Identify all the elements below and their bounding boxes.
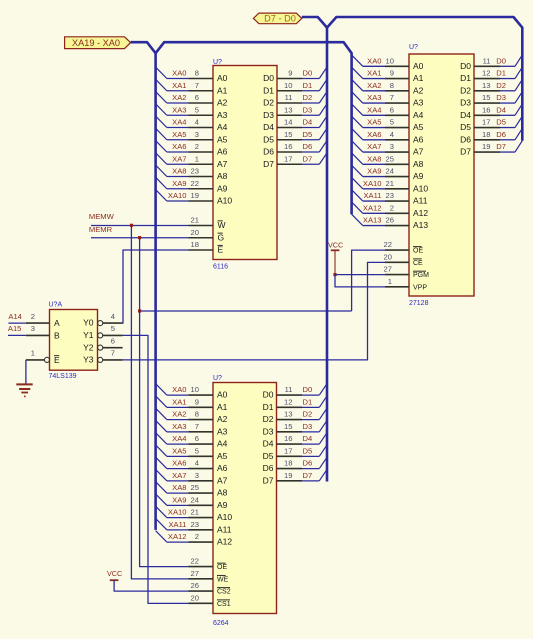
svg-text:A9: A9 <box>413 171 424 181</box>
svg-text:A4: A4 <box>413 110 424 120</box>
svg-text:5: 5 <box>390 118 394 127</box>
svg-text:VCC: VCC <box>328 241 343 250</box>
svg-text:A1: A1 <box>217 85 228 95</box>
wire bus-entry XA7 <box>156 469 167 480</box>
svg-text:D4: D4 <box>303 118 313 127</box>
svg-text:A5: A5 <box>217 134 228 144</box>
pin 10 <box>277 90 302 92</box>
wire bus-entry D7 <box>500 151 515 153</box>
svg-text:A3: A3 <box>413 98 424 108</box>
wire MEMR to 6116 pin 20 <box>91 237 189 239</box>
svg-text:5: 5 <box>195 446 199 455</box>
svg-text:20: 20 <box>191 228 199 237</box>
svg-text:A6: A6 <box>217 147 228 157</box>
svg-text:XA10: XA10 <box>363 179 382 188</box>
svg-text:21: 21 <box>191 216 199 225</box>
pin 4 <box>385 139 409 141</box>
pin 2 <box>385 212 409 214</box>
wire bus-entry D1 <box>500 78 515 80</box>
svg-text:XA1: XA1 <box>367 69 381 78</box>
svg-text:A5: A5 <box>413 122 424 132</box>
svg-text:13: 13 <box>284 105 292 114</box>
svg-text:A14: A14 <box>8 312 22 321</box>
wire bus-entry XA9 <box>156 494 167 505</box>
pin 1 (E-bar) of 74LS139 <box>26 359 45 361</box>
wire bus-entry XA10 <box>352 177 363 188</box>
pin 27 (PGM) of 27128 <box>385 274 409 276</box>
svg-text:D5: D5 <box>303 130 313 139</box>
pin 6 (Y2) of 74LS139 <box>98 345 103 350</box>
pin 16 <box>474 114 500 116</box>
pin 1 (VPP) of 27128 <box>385 286 409 288</box>
svg-text:D7: D7 <box>263 475 274 485</box>
wire bus-entry D5 <box>302 139 319 141</box>
pin 11 <box>474 65 500 67</box>
svg-text:D0: D0 <box>303 385 313 394</box>
svg-text:10: 10 <box>191 385 199 394</box>
svg-text:XA10: XA10 <box>168 191 187 200</box>
pin 7 <box>189 90 214 92</box>
pin 25 <box>385 163 409 165</box>
pin 2 <box>189 541 214 543</box>
svg-text:16: 16 <box>284 434 292 443</box>
svg-text:10: 10 <box>284 81 292 90</box>
svg-text:D3: D3 <box>303 422 313 431</box>
pin 6 <box>189 443 214 445</box>
junction MEMW <box>130 224 133 227</box>
svg-text:20: 20 <box>384 252 392 261</box>
wire bus-entry XA1 <box>352 67 363 78</box>
svg-text:WE: WE <box>217 576 229 583</box>
pin 5 <box>385 127 409 129</box>
svg-text:A0: A0 <box>217 73 228 83</box>
svg-text:D1: D1 <box>496 69 506 78</box>
svg-text:6: 6 <box>195 434 199 443</box>
svg-text:7: 7 <box>195 422 199 431</box>
junction MEMR-OE branch <box>138 309 141 312</box>
svg-text:A5: A5 <box>217 451 228 461</box>
svg-text:D4: D4 <box>263 122 274 132</box>
svg-text:XA3: XA3 <box>367 93 381 102</box>
svg-text:D2: D2 <box>263 98 274 108</box>
wire bus-entry D1 <box>302 90 319 92</box>
svg-text:A4: A4 <box>217 439 228 449</box>
svg-text:D6: D6 <box>303 142 313 151</box>
svg-text:OE: OE <box>413 248 423 255</box>
pin 2 (A) of 74LS139 <box>26 322 50 324</box>
svg-text:25: 25 <box>191 483 199 492</box>
wire bus-entry XA6 <box>156 457 167 468</box>
svg-text:U?A: U?A <box>49 302 63 309</box>
pin 25 <box>189 492 214 494</box>
svg-text:XA5: XA5 <box>172 446 186 455</box>
bus XA vertical left (to 6116 and 6264 address entries) <box>154 52 157 530</box>
wire bus-entry D4 <box>500 114 515 116</box>
wire Y1 to 6264 CS1 (pin 20) <box>123 335 189 603</box>
svg-text:XA10: XA10 <box>168 508 187 517</box>
svg-text:D1: D1 <box>263 402 274 412</box>
bus label XA19-XA0 <box>65 37 131 49</box>
pin 11 <box>277 102 302 104</box>
wire bus-entry XA5 <box>156 445 167 456</box>
wire bus-entry XA8 <box>156 165 167 176</box>
svg-text:XA0: XA0 <box>172 385 186 394</box>
svg-text:3: 3 <box>31 324 35 333</box>
pin 7 <box>189 431 214 433</box>
pin 15 <box>277 431 303 433</box>
svg-text:A2: A2 <box>217 414 228 424</box>
pin 23 <box>385 200 409 202</box>
wire VCC to 6264 CS2 (pin 26) <box>114 580 188 591</box>
svg-text:CE: CE <box>413 260 423 267</box>
wire bus-entry D0 <box>302 394 319 396</box>
svg-text:2: 2 <box>195 532 199 541</box>
svg-text:12: 12 <box>482 69 490 78</box>
svg-text:A12: A12 <box>217 537 232 547</box>
svg-text:26: 26 <box>386 216 394 225</box>
svg-text:XA11: XA11 <box>168 520 186 529</box>
pin 10 <box>189 394 214 396</box>
svg-text:D1: D1 <box>303 81 313 90</box>
svg-text:D3: D3 <box>263 110 274 120</box>
svg-text:22: 22 <box>191 557 199 566</box>
wire bus-entry XA8 <box>156 482 167 493</box>
svg-text:A0: A0 <box>217 390 228 400</box>
wire bus-entry XA12 <box>156 531 167 542</box>
svg-text:6264: 6264 <box>213 620 229 627</box>
svg-text:A12: A12 <box>413 208 428 218</box>
pin 3 (B) of 74LS139 <box>26 334 50 336</box>
svg-text:D0: D0 <box>303 69 313 78</box>
junction VCC-PGM <box>333 273 336 276</box>
svg-text:D3: D3 <box>263 426 274 436</box>
svg-text:27: 27 <box>191 569 199 578</box>
wire bus-entry D2 <box>302 419 319 421</box>
svg-text:24: 24 <box>386 167 394 176</box>
svg-text:D5: D5 <box>263 451 274 461</box>
wire bus-entry D4 <box>302 127 319 129</box>
pin 24 <box>385 176 409 178</box>
svg-text:D2: D2 <box>263 414 274 424</box>
svg-text:A7: A7 <box>217 475 228 485</box>
pin 4 (Y0) of 74LS139 <box>98 321 103 326</box>
svg-text:XA0: XA0 <box>172 69 186 78</box>
svg-text:D0: D0 <box>496 56 506 65</box>
svg-text:A8: A8 <box>217 488 228 498</box>
svg-text:D7: D7 <box>303 471 313 480</box>
pin 18 <box>277 468 303 470</box>
pin 9 <box>189 406 214 408</box>
pin 17 <box>277 163 302 165</box>
svg-text:4: 4 <box>195 118 199 127</box>
svg-text:XA19 - XA0: XA19 - XA0 <box>72 38 120 48</box>
wire E to ground <box>25 360 27 384</box>
svg-text:7: 7 <box>111 349 115 358</box>
svg-text:6: 6 <box>111 336 115 345</box>
pin 11 <box>277 394 303 396</box>
pin 10 <box>385 65 409 67</box>
wire bus-entry D6 <box>500 139 515 141</box>
svg-text:XA4: XA4 <box>367 105 381 114</box>
pin 2 <box>189 151 214 153</box>
svg-text:D3: D3 <box>496 93 506 102</box>
pin 23 <box>189 529 214 531</box>
pin 4 <box>189 468 214 470</box>
svg-text:XA8: XA8 <box>172 483 186 492</box>
wire bus-entry XA11 <box>156 518 167 529</box>
pin 19 <box>189 200 214 202</box>
wire bus-entry XA6 <box>156 141 167 152</box>
memory chip U? 6116 <box>213 66 277 260</box>
svg-text:15: 15 <box>284 130 292 139</box>
svg-text:A10: A10 <box>217 512 232 522</box>
wire bus-entry D1 <box>302 406 319 408</box>
svg-text:1: 1 <box>195 154 199 163</box>
wire MEMR branch to 27128 OE (pin 22) <box>140 310 352 312</box>
pin 12 <box>474 78 500 80</box>
svg-text:D2: D2 <box>303 410 313 419</box>
svg-text:15: 15 <box>284 422 292 431</box>
svg-text:18: 18 <box>191 240 199 249</box>
svg-text:Y0: Y0 <box>83 318 94 328</box>
svg-text:7: 7 <box>390 93 394 102</box>
pin 17 <box>277 455 303 457</box>
wire bus-entry D3 <box>500 102 515 104</box>
svg-text:6: 6 <box>390 105 394 114</box>
svg-text:12: 12 <box>284 397 292 406</box>
bus label D7-D0 <box>253 13 301 24</box>
svg-text:MEMR: MEMR <box>89 225 113 234</box>
svg-text:25: 25 <box>386 154 394 163</box>
svg-text:XA2: XA2 <box>367 81 381 90</box>
memory chip U? 6264 <box>213 383 277 614</box>
svg-text:6: 6 <box>195 93 199 102</box>
svg-text:XA7: XA7 <box>172 471 186 480</box>
svg-text:A8: A8 <box>217 171 228 181</box>
svg-text:D6: D6 <box>460 134 471 144</box>
pin 4 <box>189 127 214 129</box>
svg-text:D1: D1 <box>303 397 313 406</box>
wire bus-entry D0 <box>302 78 319 80</box>
svg-text:XA8: XA8 <box>172 167 186 176</box>
wire bus-entry XA1 <box>156 396 167 407</box>
svg-text:18: 18 <box>482 130 490 139</box>
wire bus-entry XA3 <box>156 104 167 115</box>
svg-text:PGM: PGM <box>413 272 429 279</box>
wire bus-entry D4 <box>302 443 319 445</box>
svg-text:23: 23 <box>386 191 394 200</box>
pin 6 <box>385 114 409 116</box>
svg-text:7: 7 <box>195 81 199 90</box>
svg-text:XA6: XA6 <box>367 130 381 139</box>
svg-text:D7: D7 <box>303 154 313 163</box>
svg-text:VCC: VCC <box>107 569 122 578</box>
wire bus-entry XA1 <box>156 79 167 90</box>
svg-text:A: A <box>54 318 60 328</box>
wire VCC to 27128 PGM (pin 27) <box>335 274 385 276</box>
pin 3 <box>385 151 409 153</box>
svg-text:U?: U? <box>213 59 222 66</box>
wire MEMW to 6116 pin 21 <box>91 225 189 227</box>
pin 21 (W-bar) of 6116 <box>189 225 214 227</box>
pin 19 <box>277 480 303 482</box>
junction MEMR <box>138 236 141 239</box>
wire MEMR vertical to 6264 OE (pin 22) <box>140 238 189 567</box>
wire bus-entry XA7 <box>156 153 167 164</box>
svg-text:D2: D2 <box>496 81 506 90</box>
svg-text:A9: A9 <box>217 500 228 510</box>
pin 3 <box>189 480 214 482</box>
svg-text:XA7: XA7 <box>367 142 381 151</box>
svg-text:VPP: VPP <box>413 284 427 291</box>
svg-text:11: 11 <box>285 93 293 102</box>
svg-text:A7: A7 <box>217 159 228 169</box>
bus D (data bus top, V-drop at x=327, corner to right vertical at x=522.3) <box>302 17 523 141</box>
wire bus-entry XA5 <box>156 128 167 139</box>
svg-text:XA8: XA8 <box>367 154 381 163</box>
svg-text:D1: D1 <box>263 85 274 95</box>
bus D vertical middle (6116 / 6264 data entries) <box>326 27 329 482</box>
wire bus-entry XA6 <box>352 128 363 139</box>
svg-text:26: 26 <box>191 581 199 590</box>
pin 3 <box>189 139 214 141</box>
svg-text:XA12: XA12 <box>363 203 382 212</box>
svg-text:D0: D0 <box>460 61 471 71</box>
svg-text:D6: D6 <box>303 459 313 468</box>
pin 19 <box>474 151 500 153</box>
pin 7 (Y3) of 74LS139 <box>98 357 103 362</box>
pin 16 <box>277 443 303 445</box>
svg-text:23: 23 <box>191 167 199 176</box>
svg-text:XA5: XA5 <box>172 130 186 139</box>
svg-text:8: 8 <box>390 81 394 90</box>
ground <box>16 384 32 396</box>
svg-text:D3: D3 <box>460 98 471 108</box>
svg-text:22: 22 <box>191 179 199 188</box>
svg-text:Y1: Y1 <box>83 330 94 340</box>
svg-text:XA1: XA1 <box>172 81 186 90</box>
pin 26 (CS2) of 6264 <box>189 590 214 592</box>
wire bus-entry XA13 <box>352 214 363 225</box>
wire MEMW vertical to 6264 WE (pin 27) <box>131 226 188 579</box>
wire bus-entry XA10 <box>156 506 167 517</box>
svg-text:D4: D4 <box>496 105 506 114</box>
svg-text:D4: D4 <box>460 110 471 120</box>
svg-text:B: B <box>54 330 60 340</box>
svg-text:A4: A4 <box>217 122 228 132</box>
svg-text:CS1: CS1 <box>217 601 231 608</box>
svg-text:XA11: XA11 <box>363 191 381 200</box>
svg-text:XA0: XA0 <box>367 56 381 65</box>
svg-text:XA13: XA13 <box>363 216 382 225</box>
svg-text:4: 4 <box>195 459 199 468</box>
svg-text:CS2: CS2 <box>217 589 231 596</box>
svg-text:XA5: XA5 <box>367 118 381 127</box>
svg-text:15: 15 <box>482 93 490 102</box>
svg-text:A6: A6 <box>413 134 424 144</box>
svg-text:17: 17 <box>482 118 490 127</box>
wire bus-entry XA2 <box>156 92 167 103</box>
svg-text:11: 11 <box>483 56 491 65</box>
svg-text:13: 13 <box>482 81 490 90</box>
svg-text:XA4: XA4 <box>172 118 186 127</box>
pin 15 <box>277 139 302 141</box>
wire bus-entry XA4 <box>156 433 167 444</box>
svg-text:17: 17 <box>284 446 292 455</box>
svg-text:A9: A9 <box>217 183 228 193</box>
wire bus-entry D2 <box>302 102 319 104</box>
wire Y0 to 6116 E (pin 18) <box>123 250 189 323</box>
svg-text:10: 10 <box>386 56 394 65</box>
decoder U?A 74LS139 <box>50 310 98 371</box>
svg-text:XA3: XA3 <box>172 422 186 431</box>
svg-text:A2: A2 <box>217 98 228 108</box>
pin 7 <box>385 102 409 104</box>
pin 9 <box>385 78 409 80</box>
svg-text:D6: D6 <box>263 463 274 473</box>
svg-text:A3: A3 <box>217 110 228 120</box>
svg-text:XA6: XA6 <box>172 459 186 468</box>
wire A14 to pin 2 <box>8 322 26 324</box>
svg-text:XA4: XA4 <box>172 434 186 443</box>
svg-text:2: 2 <box>195 142 199 151</box>
svg-text:A10: A10 <box>217 196 232 206</box>
wire bus-entry D7 <box>302 163 319 165</box>
svg-text:21: 21 <box>386 179 394 188</box>
svg-text:D5: D5 <box>303 446 313 455</box>
wire bus-entry D3 <box>302 114 319 116</box>
svg-text:G: G <box>218 232 225 242</box>
pin 5 <box>189 455 214 457</box>
wire bus-entry XA4 <box>352 104 363 115</box>
svg-text:XA3: XA3 <box>172 105 186 114</box>
svg-text:6116: 6116 <box>213 264 228 271</box>
svg-text:D4: D4 <box>303 434 313 443</box>
svg-text:D3: D3 <box>303 105 313 114</box>
pin 5 (Y1) of 74LS139 <box>98 333 103 338</box>
wire VCC to 27128 VPP (pin 1) <box>335 275 385 287</box>
svg-text:Y2: Y2 <box>83 342 94 352</box>
svg-text:2: 2 <box>31 312 35 321</box>
svg-text:5: 5 <box>195 105 199 114</box>
pin 18 (E-bar) of 6116 <box>189 249 214 251</box>
wire bus-entry XA8 <box>352 153 363 164</box>
svg-text:A13: A13 <box>413 220 428 230</box>
pin 22 (OE) of 27128 <box>385 249 409 251</box>
svg-text:2: 2 <box>390 203 394 212</box>
svg-text:D4: D4 <box>263 439 274 449</box>
wire bus-entry D0 <box>500 65 515 67</box>
wire bus-entry XA7 <box>352 141 363 152</box>
svg-text:XA9: XA9 <box>172 179 186 188</box>
wire bus-entry D3 <box>302 431 319 433</box>
pin 9 <box>277 78 302 80</box>
svg-text:XA12: XA12 <box>168 532 187 541</box>
pin 1 <box>189 163 214 165</box>
svg-text:21: 21 <box>191 508 199 517</box>
svg-text:11: 11 <box>285 385 293 394</box>
svg-text:XA2: XA2 <box>172 93 186 102</box>
wire bus-entry XA4 <box>156 116 167 127</box>
svg-text:27128: 27128 <box>409 300 429 307</box>
pin 8 <box>189 78 214 80</box>
svg-text:9: 9 <box>288 69 292 78</box>
svg-text:18: 18 <box>284 459 292 468</box>
svg-text:16: 16 <box>482 105 490 114</box>
svg-text:A1: A1 <box>217 402 228 412</box>
svg-text:D0: D0 <box>263 390 274 400</box>
pin 21 <box>385 188 409 190</box>
